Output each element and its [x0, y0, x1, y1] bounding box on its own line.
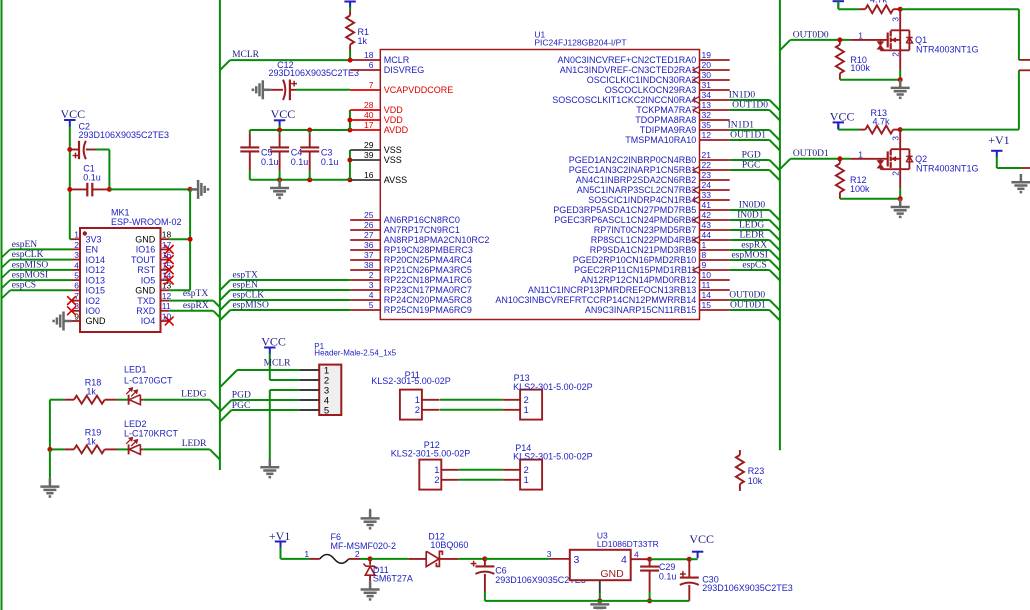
connector P13 KLS2-301-5.00-02P: [520, 390, 542, 420]
left vertical wire bus: [1, 0, 3, 610]
wire P11 pin2 to P13 pin1: [440, 409, 503, 411]
svg-text:3: 3: [891, 136, 901, 141]
svg-text:IO15: IO15: [86, 286, 106, 296]
U1 pin 39 VSS: [350, 159, 380, 161]
MK1 pin 11 RXD: [161, 310, 170, 312]
MK1 pin 9 GND: [72, 320, 81, 322]
wire espCLK from bus to U1: [220, 300, 230, 310]
capacitor C12: [271, 89, 283, 91]
svg-text:5: 5: [74, 271, 79, 281]
svg-text:100k: 100k: [850, 184, 870, 194]
capacitor C1: [67, 187, 72, 192]
svg-text:11: 11: [162, 301, 171, 311]
svg-text:NTR4003NT1G: NTR4003NT1G: [916, 163, 979, 173]
U1 pin 8 PGED2RP10CN16PMD2RB10: [700, 259, 730, 261]
svg-text:3: 3: [369, 280, 374, 290]
svg-text:12: 12: [162, 291, 172, 301]
svg-text:GND: GND: [135, 234, 156, 244]
svg-text:RP21CN26PMA3RC5: RP21CN26PMA3RC5: [384, 265, 472, 275]
LED LED1 L-C170GCT: [117, 399, 129, 401]
U1 pin 23 AN4C1INBRP2SDA2CN6RB2: [700, 179, 730, 181]
svg-text:PGED2RP10CN16PMD2RB10: PGED2RP10CN16PMD2RB10: [573, 255, 697, 265]
svg-text:AN10C3INBCVREFRTCCRP14CN12PMWR: AN10C3INBCVREFRTCCRP14CN12PMWRRB14: [495, 295, 696, 305]
wire C2 to corner: [96, 149, 110, 151]
ground (sideways) at C12: [253, 80, 271, 99]
svg-text:VDD: VDD: [384, 115, 404, 125]
svg-text:TXD: TXD: [137, 296, 156, 306]
wire espRX to right bus: [730, 249, 770, 251]
svg-text:AN7RP17CN9RC1: AN7RP17CN9RC1: [384, 225, 460, 235]
wire LEDG to right bus: [730, 229, 770, 231]
wire PGC to P1 pin 5: [220, 410, 232, 422]
MK1 pin 8 IO0: [72, 310, 81, 312]
svg-text:LD1086DT33TR: LD1086DT33TR: [597, 539, 659, 549]
svg-text:2: 2: [891, 171, 901, 176]
connector pin stub (right edge, bottom): [1022, 167, 1030, 169]
U1 pin 35 TDIPMA9RA9: [700, 129, 730, 131]
wire ESP pin18 to ground rail: [169, 238, 190, 240]
wire ESP pin13 to ground rail: [169, 289, 190, 291]
LED LED2 L-C170KRCT: [117, 448, 129, 450]
svg-text:24: 24: [702, 180, 712, 190]
svg-text:OUT1D1: OUT1D1: [730, 131, 766, 141]
resistor R12 100k: [837, 156, 842, 161]
wire ESP pin1 to VCC rail: [70, 238, 72, 240]
svg-text:AVDD: AVDD: [384, 125, 409, 135]
ground (sideways) near ESP: [190, 180, 208, 199]
wire P12 pin1 to P14 pin2: [459, 469, 503, 471]
wire +V1 to fuse: [280, 548, 282, 559]
svg-text:31: 31: [702, 80, 712, 90]
svg-text:SOSCIC1INDRP4CN1RB4: SOSCIC1INDRP4CN1RB4: [588, 195, 696, 205]
svg-text:RP20CN25PMA4RC4: RP20CN25PMA4RC4: [384, 255, 472, 265]
svg-text:4: 4: [621, 554, 627, 566]
svg-text:KLS2-301-5.00-02P: KLS2-301-5.00-02P: [513, 382, 593, 392]
wire espRX from ESP pin 11: [169, 310, 213, 312]
svg-text:AN4C1INBRP2SDA2CN6RB2: AN4C1INBRP2SDA2CN6RB2: [576, 175, 697, 185]
svg-text:C3: C3: [321, 148, 333, 158]
svg-text:1: 1: [524, 475, 529, 486]
svg-text:4: 4: [74, 260, 79, 270]
wire OUT0D0 from bus to Q1 gate: [780, 40, 790, 50]
svg-text:38: 38: [364, 260, 374, 270]
transistor Q1 NTR4003NT1G: [850, 39, 887, 41]
svg-text:32: 32: [702, 110, 712, 120]
svg-text:0.1u: 0.1u: [321, 157, 339, 167]
svg-text:0.1u: 0.1u: [261, 157, 279, 167]
svg-text:espEN: espEN: [233, 280, 258, 290]
svg-text:8: 8: [702, 250, 707, 260]
svg-text:RP8SCL1CN22PMD4RB8: RP8SCL1CN22PMD4RB8: [591, 235, 697, 245]
svg-text:+V1: +V1: [269, 529, 290, 543]
wire IN1D1 to right bus: [730, 129, 770, 131]
svg-text:GND: GND: [600, 568, 624, 580]
svg-text:C5: C5: [261, 148, 273, 158]
svg-text:26: 26: [364, 220, 374, 230]
P1 pin 5: [299, 409, 319, 411]
MK1 pin 17 IO16: [161, 248, 170, 250]
no-connect X marks on MK1 pins 7,8: [67, 296, 76, 305]
svg-text:41: 41: [702, 200, 712, 210]
U1 pin 36 RP19CN28PMBERC3: [350, 249, 380, 251]
U1 pin 14 AN10C3INBCVREFRTCCRP14CN12PMWRRB14: [700, 299, 730, 301]
svg-text:PGEC2RP11CN15PMD1RB11: PGEC2RP11CN15PMD1RB11: [574, 265, 696, 275]
svg-text:C6: C6: [495, 565, 507, 575]
ground below D11: [361, 581, 380, 599]
power symbol VCC (above R1): [344, 2, 355, 9]
svg-text:MCLR: MCLR: [264, 359, 292, 369]
svg-text:espMOSI: espMOSI: [731, 251, 767, 261]
svg-text:IO16: IO16: [136, 245, 156, 255]
svg-text:16: 16: [364, 170, 374, 180]
svg-text:VCC: VCC: [689, 532, 714, 546]
svg-text:SM6T27A: SM6T27A: [373, 573, 413, 583]
svg-text:IN0D1: IN0D1: [737, 211, 764, 221]
connector pin stub (right edge, lower): [1019, 69, 1030, 71]
svg-text:23: 23: [702, 170, 712, 180]
svg-text:L-C170GCT: L-C170GCT: [124, 375, 173, 385]
svg-text:RP24CN20PMA5RC8: RP24CN20PMA5RC8: [384, 295, 472, 305]
power symbol VCC (Q2): [833, 122, 844, 128]
MK1 pin 18 GND: [161, 238, 170, 240]
svg-text:2: 2: [369, 270, 374, 280]
wire VCC down to ESP pin 1: [69, 127, 71, 240]
svg-text:10: 10: [702, 270, 712, 280]
power symbol +V1 (bottom): [275, 542, 286, 549]
svg-text:AN0C3INCVREF+CN2CTED1RA0: AN0C3INCVREF+CN2CTED1RA0: [558, 55, 697, 65]
wire OUT0D1 to right bus: [730, 309, 770, 311]
P11 pin 1: [422, 399, 439, 401]
svg-text:MF-MSMF020-2: MF-MSMF020-2: [331, 541, 397, 551]
svg-text:34: 34: [702, 90, 712, 100]
svg-text:1k: 1k: [86, 437, 96, 447]
U1 pin 5 RP25CN19PMA6RC9: [350, 309, 380, 311]
U1 pin 17 AVDD: [350, 129, 380, 131]
wire P1 pin 3 to ground: [270, 389, 300, 391]
wire P11 pin1 to P13 pin2: [440, 399, 503, 401]
svg-text:28: 28: [364, 100, 374, 110]
svg-text:9: 9: [702, 260, 707, 270]
U1 pin 16 AVSS: [350, 179, 380, 181]
wire down to ESP pin 18 / pin 13: [189, 189, 191, 290]
capacitor C3 0.1u: [309, 130, 311, 133]
wire C6 to U3 pin 3: [485, 558, 550, 560]
svg-text:TCKPMA7RA7: TCKPMA7RA7: [636, 105, 696, 115]
U1 pin 30 OSCICLKIC1INDCN30RA2: [700, 79, 730, 81]
power symbol +V1 (right): [991, 151, 1002, 158]
middle vertical wire bus: [219, 0, 221, 470]
svg-text:30: 30: [702, 70, 712, 80]
U1 pin 44 RP8SCL1CN22PMD4RB8: [700, 239, 730, 241]
MK1 pin 1 3V3: [72, 238, 81, 240]
junction Q2 source: [898, 196, 903, 201]
P13 pin 2: [503, 399, 520, 401]
wire P12 pin2 to P14 pin1: [459, 479, 503, 481]
svg-text:20: 20: [702, 60, 712, 70]
svg-text:AVSS: AVSS: [384, 175, 407, 185]
wire VCC to P1 pin 2: [269, 354, 271, 381]
svg-text:7: 7: [369, 80, 374, 90]
ground below LEDs: [40, 478, 59, 496]
wire espTX from ESP pin 12: [169, 300, 213, 302]
IC U1 PIC24FJ128GB204-I/PT: [380, 50, 699, 320]
svg-text:IO2: IO2: [86, 296, 101, 306]
svg-text:RP7INT0CN23PMD5RB7: RP7INT0CN23PMD5RB7: [594, 225, 697, 235]
bottom ground rail wire: [485, 600, 689, 602]
svg-text:Header-Male-2.54_1x5: Header-Male-2.54_1x5: [314, 349, 396, 358]
svg-text:ESP-WROOM-02: ESP-WROOM-02: [111, 217, 182, 227]
U1 pin 12 TMSPMA10RA10: [700, 139, 730, 141]
regulator U3 LD1086DT33TR: [550, 558, 570, 560]
P1 pin 4: [299, 399, 319, 401]
svg-text:IO12: IO12: [86, 265, 106, 275]
svg-text:espCS: espCS: [12, 281, 36, 291]
MK1 pin 6 IO15: [72, 289, 81, 291]
svg-text:36: 36: [364, 240, 374, 250]
U3 GND pin: [599, 580, 601, 593]
svg-text:SOSCOSCLKIT1CKC2INCCN0RA4: SOSCOSCLKIT1CKC2INCCN0RA4: [552, 95, 696, 105]
P14 pin 1: [503, 479, 520, 481]
svg-text:37: 37: [364, 250, 374, 260]
svg-text:KLS2-301-5.00-02P: KLS2-301-5.00-02P: [513, 451, 593, 461]
wire espTX from bus to U1: [220, 280, 230, 290]
svg-text:2: 2: [74, 240, 79, 250]
wire VDD rail: [250, 129, 350, 131]
capacitor C30 293D106X9035C2TE3: [688, 559, 690, 577]
power symbol VCC (decoupling): [274, 120, 285, 127]
svg-text:19: 19: [702, 50, 712, 60]
resistor R18 1k: [50, 399, 65, 401]
module MK1 ESP-WROOM-02: [80, 228, 161, 332]
svg-text:0.1u: 0.1u: [83, 172, 101, 182]
svg-text:1k: 1k: [358, 36, 368, 46]
svg-text:IN1D0: IN1D0: [729, 91, 756, 101]
wire espMISO to ESP: [10, 269, 71, 271]
P14 pin 2: [503, 469, 520, 471]
svg-text:AN5C1INARP3SCL2CN7RB3: AN5C1INARP3SCL2CN7RB3: [577, 185, 697, 195]
svg-text:14: 14: [702, 290, 712, 300]
connector P1 Header-Male-2.54_1x5: [319, 365, 341, 415]
U1 pin 25 AN6RP16CN8RC0: [350, 219, 380, 221]
svg-text:RP22CN18PMA1RC6: RP22CN18PMA1RC6: [384, 275, 472, 285]
ground below P12: [369, 509, 371, 519]
wire LED common leg: [49, 400, 51, 450]
svg-text:espCLK: espCLK: [12, 250, 44, 260]
MK1 pin 13 GND: [161, 289, 170, 291]
svg-text:espCS: espCS: [742, 261, 766, 271]
MK1 pin 12 TXD: [161, 300, 170, 302]
svg-text:3: 3: [891, 17, 901, 22]
U1 pin 19 AN0C3INCVREF+CN2CTED1RA0: [700, 59, 730, 61]
svg-text:39: 39: [364, 150, 374, 160]
svg-text:espCLK: espCLK: [233, 290, 265, 300]
capacitor C6 293D106X9035C2TE3: [484, 559, 486, 567]
svg-text:2: 2: [891, 52, 901, 57]
wire Q2 drain to right connector: [898, 127, 903, 132]
svg-text:espRX: espRX: [741, 241, 767, 251]
power symbol VCC (output): [692, 552, 703, 559]
svg-text:3: 3: [574, 554, 580, 566]
TVS diode D11 SM6T27A: [369, 559, 371, 565]
svg-text:KLS2-301-5.00-02P: KLS2-301-5.00-02P: [371, 376, 451, 386]
svg-text:29: 29: [364, 140, 374, 150]
U1 pin 21 PGED1AN2C2INBRP0CN4RB0: [700, 159, 730, 161]
svg-text:OSCICLKIC1INDCN30RA2: OSCICLKIC1INDCN30RA2: [587, 75, 697, 85]
P12 pin 2: [441, 479, 458, 481]
capacitor C4 0.1u: [279, 130, 281, 133]
MK1 pin 4 IO12: [72, 269, 81, 271]
connector pin stub (right edge, upper): [1019, 59, 1030, 61]
power symbol VCC (top left): [64, 120, 75, 127]
svg-text:293D106X9035C2TE3: 293D106X9035C2TE3: [702, 583, 793, 593]
U1 pin 32 TDOPMA8RA8: [700, 119, 730, 121]
svg-text:TDIPMA9RA9: TDIPMA9RA9: [640, 125, 697, 135]
svg-text:35: 35: [702, 120, 712, 130]
svg-text:PGD: PGD: [232, 391, 251, 401]
svg-text:17: 17: [364, 120, 374, 130]
svg-text:1: 1: [858, 149, 863, 159]
svg-text:MK1: MK1: [111, 208, 130, 218]
svg-text:LEDG: LEDG: [739, 221, 764, 231]
svg-text:TOUT: TOUT: [131, 255, 156, 265]
MK1 pin 5 IO13: [72, 279, 81, 281]
svg-text:293D106X9035C2TE3: 293D106X9035C2TE3: [79, 130, 170, 140]
svg-text:PGEC1AN3C2INARP1CN5RB1: PGEC1AN3C2INARP1CN5RB1: [569, 165, 697, 175]
svg-text:PGC: PGC: [232, 401, 250, 411]
svg-text:MCLR: MCLR: [384, 55, 410, 65]
wire fuse to D11 junction: [360, 558, 370, 560]
svg-text:22: 22: [702, 160, 712, 170]
svg-text:DISVREG: DISVREG: [384, 65, 425, 75]
svg-text:4.7k: 4.7k: [870, 0, 888, 5]
U1 pin 43 RP7INT0CN23PMD5RB7: [700, 229, 730, 231]
svg-text:TMSPMA10RA10: TMSPMA10RA10: [625, 135, 696, 145]
wire espEN from bus to U1: [220, 290, 230, 300]
svg-text:L-C170KRCT: L-C170KRCT: [124, 429, 179, 439]
svg-text:RST: RST: [137, 265, 156, 275]
capacitor C2: [67, 147, 72, 152]
svg-text:PGED1AN2C2INBRP0CN4RB0: PGED1AN2C2INBRP0CN4RB0: [569, 155, 697, 165]
svg-text:44: 44: [702, 230, 712, 240]
P13 pin 1: [503, 409, 520, 411]
no-connect X marks on MK1 pins 17,16,15,14,10: [165, 245, 174, 254]
capacitor C5 0.1u: [249, 130, 251, 133]
U1 pin 3 RP23CN17PMA0RC7: [350, 289, 380, 291]
svg-text:0.1u: 0.1u: [659, 571, 677, 581]
U1 pin 6 DISVREG: [350, 69, 380, 71]
wire D11 junction to D12: [370, 558, 408, 560]
svg-text:espMISO: espMISO: [233, 300, 270, 310]
wire OUT0D1 from bus to Q2 gate: [780, 159, 790, 169]
svg-text:PGC: PGC: [742, 161, 760, 171]
U3 pin 4 to VCC: [631, 558, 650, 560]
U1 pin 9 PGEC2RP11CN15PMD1RB11: [700, 269, 730, 271]
svg-text:AN12RP12CN14PMD0RB12: AN12RP12CN14PMD0RB12: [581, 275, 697, 285]
wire LEDG to bus: [143, 399, 210, 401]
svg-text:11: 11: [702, 280, 711, 290]
svg-text:IN1D1: IN1D1: [728, 121, 755, 131]
capacitor C29 0.1u: [649, 559, 651, 566]
svg-text:OUT0D1: OUT0D1: [730, 301, 766, 311]
svg-text:1: 1: [702, 240, 707, 250]
svg-text:18: 18: [364, 50, 374, 60]
svg-text:espEN: espEN: [12, 240, 37, 250]
resistor R13 4.7k: [838, 129, 859, 131]
svg-text:100k: 100k: [850, 63, 870, 73]
wire PGC to right bus: [730, 169, 770, 171]
svg-text:25: 25: [364, 210, 374, 220]
svg-text:4: 4: [369, 290, 374, 300]
svg-text:4: 4: [634, 549, 639, 559]
svg-text:43: 43: [702, 220, 712, 230]
svg-text:IO13: IO13: [86, 275, 106, 285]
wire OUT0D0 to right bus: [730, 299, 770, 301]
svg-text:MCLR: MCLR: [232, 50, 260, 60]
ground at ESP pin 9: [54, 312, 72, 331]
U1 pin 22 PGEC1AN3C2INARP1CN5RB1: [700, 169, 730, 171]
svg-text:LEDR: LEDR: [182, 439, 207, 449]
U1 pin 13 TCKPMA7RA7: [700, 109, 730, 111]
power symbol VCC (P1): [264, 348, 275, 355]
svg-text:C4: C4: [291, 148, 303, 158]
wire LEDR to bus: [143, 448, 210, 450]
MK1 pin 7 IO2: [72, 300, 81, 302]
P1 pin 1: [299, 369, 319, 371]
svg-text:10k: 10k: [748, 476, 763, 486]
resistor R10 100k: [837, 37, 842, 42]
svg-text:1: 1: [524, 405, 529, 416]
svg-text:3: 3: [547, 549, 552, 559]
svg-text:R23: R23: [748, 466, 765, 476]
U1 pin 26 AN7RP17CN9RC1: [350, 229, 380, 231]
svg-text:33: 33: [702, 190, 712, 200]
svg-text:2: 2: [434, 475, 439, 486]
svg-text:espMOSI: espMOSI: [12, 271, 48, 281]
svg-text:OUT0D0: OUT0D0: [793, 30, 829, 40]
wire C1 to ground junction: [109, 188, 190, 190]
U1 pin 37 RP20CN25PMA4RC4: [350, 259, 380, 261]
svg-text:RP23CN17PMA0RC7: RP23CN17PMA0RC7: [384, 285, 472, 295]
connector P14 KLS2-301-5.00-02P: [520, 460, 542, 490]
wire MCLR to U1 pin 18: [220, 60, 230, 70]
svg-text:1k: 1k: [86, 386, 96, 396]
svg-text:PGEC3RP6ASCL1CN24PMD6RB6: PGEC3RP6ASCL1CN24PMD6RB6: [554, 215, 696, 225]
U1 pin 4 RP24CN20PMA5RC8: [350, 299, 380, 301]
svg-text:OUT0D1: OUT0D1: [793, 149, 829, 159]
svg-text:OUT0D0: OUT0D0: [729, 291, 765, 301]
U1 pin 38 RP21CN26PMA3RC5: [350, 269, 380, 271]
U1 pin 15 AN9C3INARP15CN11RB15: [700, 309, 730, 311]
resistor R1: [349, 7, 351, 11]
U1 pin 28 VDD: [350, 109, 380, 111]
wire D12 to C6 junction: [458, 558, 485, 560]
U1 pin 40 VDD: [350, 119, 380, 121]
svg-text:+V1: +V1: [988, 133, 1009, 147]
wire OUT1D1 to right bus: [730, 139, 770, 141]
ground below C4: [270, 180, 289, 198]
svg-text:AN6RP16CN8RC0: AN6RP16CN8RC0: [384, 215, 460, 225]
svg-text:NTR4003NT1G: NTR4003NT1G: [916, 44, 979, 54]
svg-text:GND: GND: [86, 316, 107, 326]
ground below Q2: [891, 199, 910, 217]
resistor R19 1k: [50, 448, 65, 450]
svg-text:KLS2-301-5.00-02P: KLS2-301-5.00-02P: [391, 449, 471, 459]
U1 pin 24 AN5C1INARP3SCL2CN7RB3: [700, 189, 730, 191]
wire espCLK to ESP: [10, 259, 71, 261]
svg-text:IO14: IO14: [86, 255, 106, 265]
wire espMOSI to right bus: [730, 259, 770, 261]
svg-text:VCAPVDDCORE: VCAPVDDCORE: [384, 85, 454, 95]
